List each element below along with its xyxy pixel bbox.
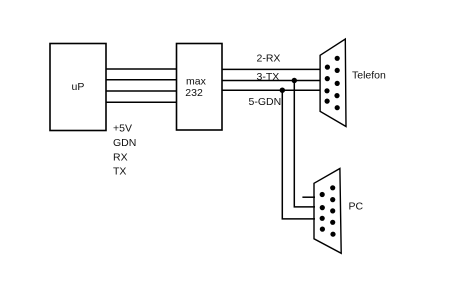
wire 3-TX (max232 to Telefon)	[222, 80, 320, 82]
svg-text:max: max	[186, 75, 207, 87]
svg-text:232: 232	[185, 87, 203, 99]
wire RX (uP to max232)	[106, 90, 177, 92]
svg-text:Telefon: Telefon	[352, 70, 386, 82]
wire from 5-GDN junction down to PC connector	[282, 90, 315, 219]
junction dot on 5-GDN wire	[280, 88, 285, 93]
svg-text:5-GDN: 5-GDN	[249, 96, 282, 108]
wire 5-GDN (max232 to Telefon)	[222, 89, 320, 91]
wire 2-RX (max232 to Telefon)	[222, 68, 320, 70]
wire from 3-TX junction down to PC connector	[294, 81, 315, 207]
wire +5V (uP to max232)	[106, 68, 177, 70]
microprocessor uP box	[50, 44, 106, 131]
svg-text:2-RX: 2-RX	[257, 52, 281, 64]
wire GDN (uP to max232)	[106, 79, 177, 81]
svg-text:PC: PC	[349, 200, 364, 212]
junction dot on 3-TX wire	[292, 78, 297, 83]
connector J1 Telefon pins	[324, 56, 339, 111]
svg-text:RX: RX	[113, 151, 128, 163]
svg-text:TX: TX	[113, 166, 126, 178]
svg-text:GDN: GDN	[113, 137, 136, 149]
svg-text:+5V: +5V	[113, 123, 132, 135]
wire stub into PC connector	[302, 196, 315, 198]
svg-text:3-TX: 3-TX	[257, 71, 280, 83]
svg-text:uP: uP	[72, 81, 85, 93]
connector J1 Telefon DB9 body	[320, 39, 346, 127]
IC U1 max232 box	[177, 44, 223, 131]
connector J2 PC pins	[320, 185, 336, 237]
wire TX (uP to max232)	[106, 101, 177, 103]
connector J2 PC DB9 body	[314, 169, 341, 254]
